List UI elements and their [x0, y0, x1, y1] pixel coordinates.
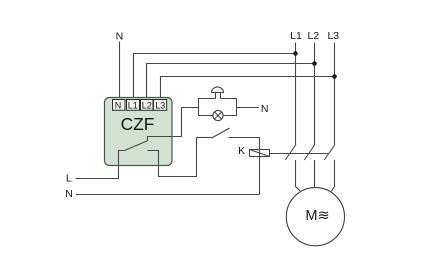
junction node on L2	[312, 61, 317, 66]
lamp H1 housing	[199, 99, 237, 116]
contact K1 blade	[285, 145, 296, 161]
wire L3 phase vertical	[334, 43, 336, 145]
wire L input bottom left to relay common	[76, 151, 125, 179]
svg-text:L1: L1	[290, 30, 302, 42]
contact K1 lower lead to motor	[296, 160, 301, 191]
motor M circle	[286, 188, 344, 246]
svg-text:CZF: CZF	[121, 114, 155, 134]
relay blade inside CZF	[125, 141, 148, 151]
terminal L1 of CZF	[127, 100, 140, 111]
CZF module body	[105, 98, 173, 166]
junction node on L3	[332, 74, 337, 79]
terminal L3 of CZF	[154, 100, 167, 111]
svg-text:M≋: M≋	[305, 208, 329, 224]
wire L2 from terminal up and right	[147, 64, 315, 101]
wire lamp to N right	[237, 107, 259, 109]
wire relay second contact lead over module	[148, 151, 159, 167]
wire N bottom line	[76, 194, 260, 196]
svg-text:L1: L1	[128, 100, 138, 110]
wire relay NO lead over module	[148, 137, 174, 142]
svg-text:N: N	[116, 31, 124, 43]
terminal N of CZF	[113, 100, 126, 111]
wire L3 from terminal up and right	[161, 77, 335, 101]
wire NO output to lamp	[148, 108, 199, 142]
wire second relay contact down and to switch	[148, 138, 197, 177]
mechanical link from coil K to contacts	[270, 153, 329, 155]
svg-text:L3: L3	[327, 30, 339, 42]
wire L1 from terminal up and right	[134, 54, 296, 101]
contact K3 blade	[324, 145, 335, 161]
wire L1 phase vertical	[295, 43, 297, 145]
wire L2 phase vertical	[314, 43, 316, 145]
svg-text:L3: L3	[155, 100, 165, 110]
svg-text:K: K	[238, 145, 245, 157]
terminal L2 of CZF	[141, 100, 154, 111]
svg-text:L2: L2	[307, 30, 319, 42]
switch S1 blade	[213, 128, 230, 137]
lamp dome	[212, 87, 224, 93]
coil K rectangle	[250, 150, 270, 157]
svg-text:N: N	[115, 100, 122, 110]
svg-text:N: N	[65, 188, 73, 200]
wire relay common lead over module	[119, 151, 125, 167]
relay blade over module	[125, 141, 148, 151]
svg-text:N: N	[261, 103, 269, 115]
switch S1 right lead down to coil K	[229, 138, 260, 195]
coil K diagonal	[250, 150, 270, 157]
junction node on L1	[293, 51, 298, 56]
svg-text:L: L	[66, 172, 72, 184]
svg-text:L2: L2	[142, 100, 152, 110]
wire N top vertical into terminal N	[119, 42, 121, 101]
switch S1 left lead	[197, 137, 213, 139]
contact K2 lower lead to motor	[314, 160, 316, 188]
contact K2 blade	[304, 145, 315, 161]
lamp stem	[216, 93, 221, 99]
contact K3 lower lead to motor	[331, 160, 334, 191]
lamp bulb circle with cross	[213, 110, 223, 120]
